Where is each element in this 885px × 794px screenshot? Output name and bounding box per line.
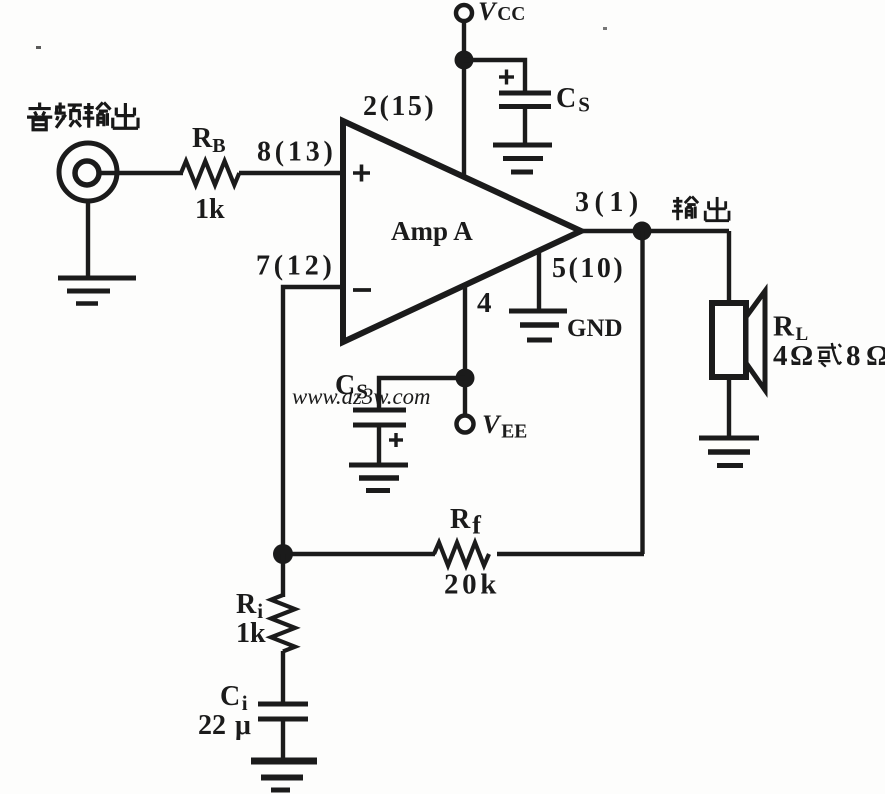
- svg-text:4: 4: [477, 287, 492, 319]
- label GND: [567, 315, 623, 342]
- label Ci value 22u: [198, 710, 251, 741]
- wire output node to speaker: [727, 231, 731, 304]
- wire Ri to capacitor Ci: [281, 651, 285, 702]
- svg-text:4: 4: [773, 340, 788, 372]
- label Ci: [220, 681, 248, 715]
- label VCC: [478, 0, 525, 26]
- ground (CS VCC bypass): [493, 145, 552, 172]
- label Rf: [450, 504, 481, 540]
- terminal VCC: [456, 5, 472, 21]
- svg-text:1k: 1k: [195, 194, 225, 225]
- speaker RL cone: [746, 291, 765, 390]
- svg-text:20k: 20k: [444, 569, 500, 601]
- wire Ci to ground: [281, 719, 285, 760]
- label CS (VCC bypass): [556, 83, 590, 117]
- watermark www.dz3w.com: [292, 384, 430, 409]
- label pin 3(1): [575, 187, 644, 218]
- label Ri value 1k: [236, 618, 266, 649]
- ground (Ci): [251, 761, 317, 790]
- svg-text:GND: GND: [567, 315, 623, 342]
- junction feedback node: [273, 544, 293, 564]
- capacitor CS (VCC bypass): [499, 93, 551, 144]
- label pin 5(10): [552, 253, 625, 284]
- svg-text:5(10): 5(10): [552, 253, 625, 284]
- svg-text:8: 8: [846, 340, 861, 372]
- wire node to capacitor CS2: [379, 378, 465, 408]
- svg-text:www.dz3w.com: www.dz3w.com: [292, 384, 430, 409]
- label CS2: [335, 370, 368, 404]
- wire inverting input to feedback node: [283, 287, 342, 556]
- svg-text:8(13): 8(13): [257, 137, 337, 168]
- junction output node: [633, 222, 652, 241]
- svg-text:Ω: Ω: [866, 340, 885, 372]
- wire speaker to ground: [727, 377, 731, 438]
- label 音频输出 (audio output): [27, 103, 138, 130]
- wire op-amp output: [579, 229, 729, 233]
- wire node to resistor Ri: [281, 554, 285, 597]
- label RL value 4ohm or 8ohm: [773, 340, 885, 372]
- junction node pin4/CS2: [456, 369, 475, 388]
- wire VCC to op-amp pin 2: [462, 21, 466, 177]
- junction node VCC/CS: [455, 51, 474, 70]
- wire op-amp pin 4 to VEE: [463, 284, 467, 415]
- label RB: [192, 123, 226, 157]
- label Ri: [236, 589, 263, 623]
- label pin 7(12): [256, 251, 336, 282]
- capacitor Ci: [258, 704, 308, 719]
- wire op-amp pin 5 to ground: [537, 251, 541, 310]
- svg-text:Ω: Ω: [790, 340, 813, 372]
- RCA connector J1 center pin: [75, 161, 99, 185]
- label RB value 1k: [195, 194, 225, 225]
- resistor RB: [181, 161, 239, 185]
- ground (pin 5 GND): [509, 311, 567, 340]
- wire VCC node to capacitor CS: [464, 60, 525, 91]
- terminal VEE: [457, 416, 474, 433]
- label op-amp Amp A: [391, 216, 473, 246]
- label 输出 (output): [672, 196, 729, 220]
- svg-text:1k: 1k: [236, 618, 266, 649]
- label Rf value 20k: [444, 569, 500, 601]
- label pin 8(13): [257, 137, 337, 168]
- op-amp U1 Amp A body: [343, 121, 581, 342]
- op-amp noninverting input +: [353, 165, 370, 182]
- wire feedback bottom left segment: [283, 552, 435, 556]
- scan speck top-left: [36, 46, 41, 49]
- RCA connector J1 outer ring: [59, 143, 117, 201]
- wire feedback bottom right segment: [497, 552, 644, 556]
- svg-text:22μ: 22μ: [198, 710, 251, 741]
- wire RB to op-amp + input: [239, 171, 342, 175]
- svg-text:Amp A: Amp A: [391, 216, 473, 246]
- wire RCA shield to ground: [86, 201, 90, 278]
- ground (RCA): [58, 278, 136, 304]
- ground (CS2 VEE bypass): [349, 465, 408, 491]
- label VEE: [482, 409, 527, 443]
- label pin 2(15): [363, 91, 436, 122]
- resistor Rf: [434, 543, 489, 566]
- wire RCA to resistor RB: [99, 171, 183, 175]
- label pin 4: [477, 287, 492, 319]
- polarity + of capacitor CS (VCC bypass): [499, 70, 514, 85]
- ground (speaker): [699, 438, 759, 466]
- polarity + of capacitor CS2: [389, 433, 403, 447]
- label RL: [773, 311, 808, 346]
- op-amp inverting input -: [353, 288, 371, 292]
- scan speck near VCC: [603, 27, 607, 30]
- svg-text:7(12): 7(12): [256, 251, 336, 282]
- wire output node down to feedback Rf: [640, 231, 644, 554]
- svg-text:VCC: VCC: [478, 0, 525, 26]
- svg-text:2(15): 2(15): [363, 91, 436, 122]
- speaker RL body: [712, 303, 746, 377]
- svg-text:3(1): 3(1): [575, 187, 644, 218]
- resistor Ri: [271, 595, 295, 651]
- capacitor CS2 (VEE bypass): [353, 410, 406, 464]
